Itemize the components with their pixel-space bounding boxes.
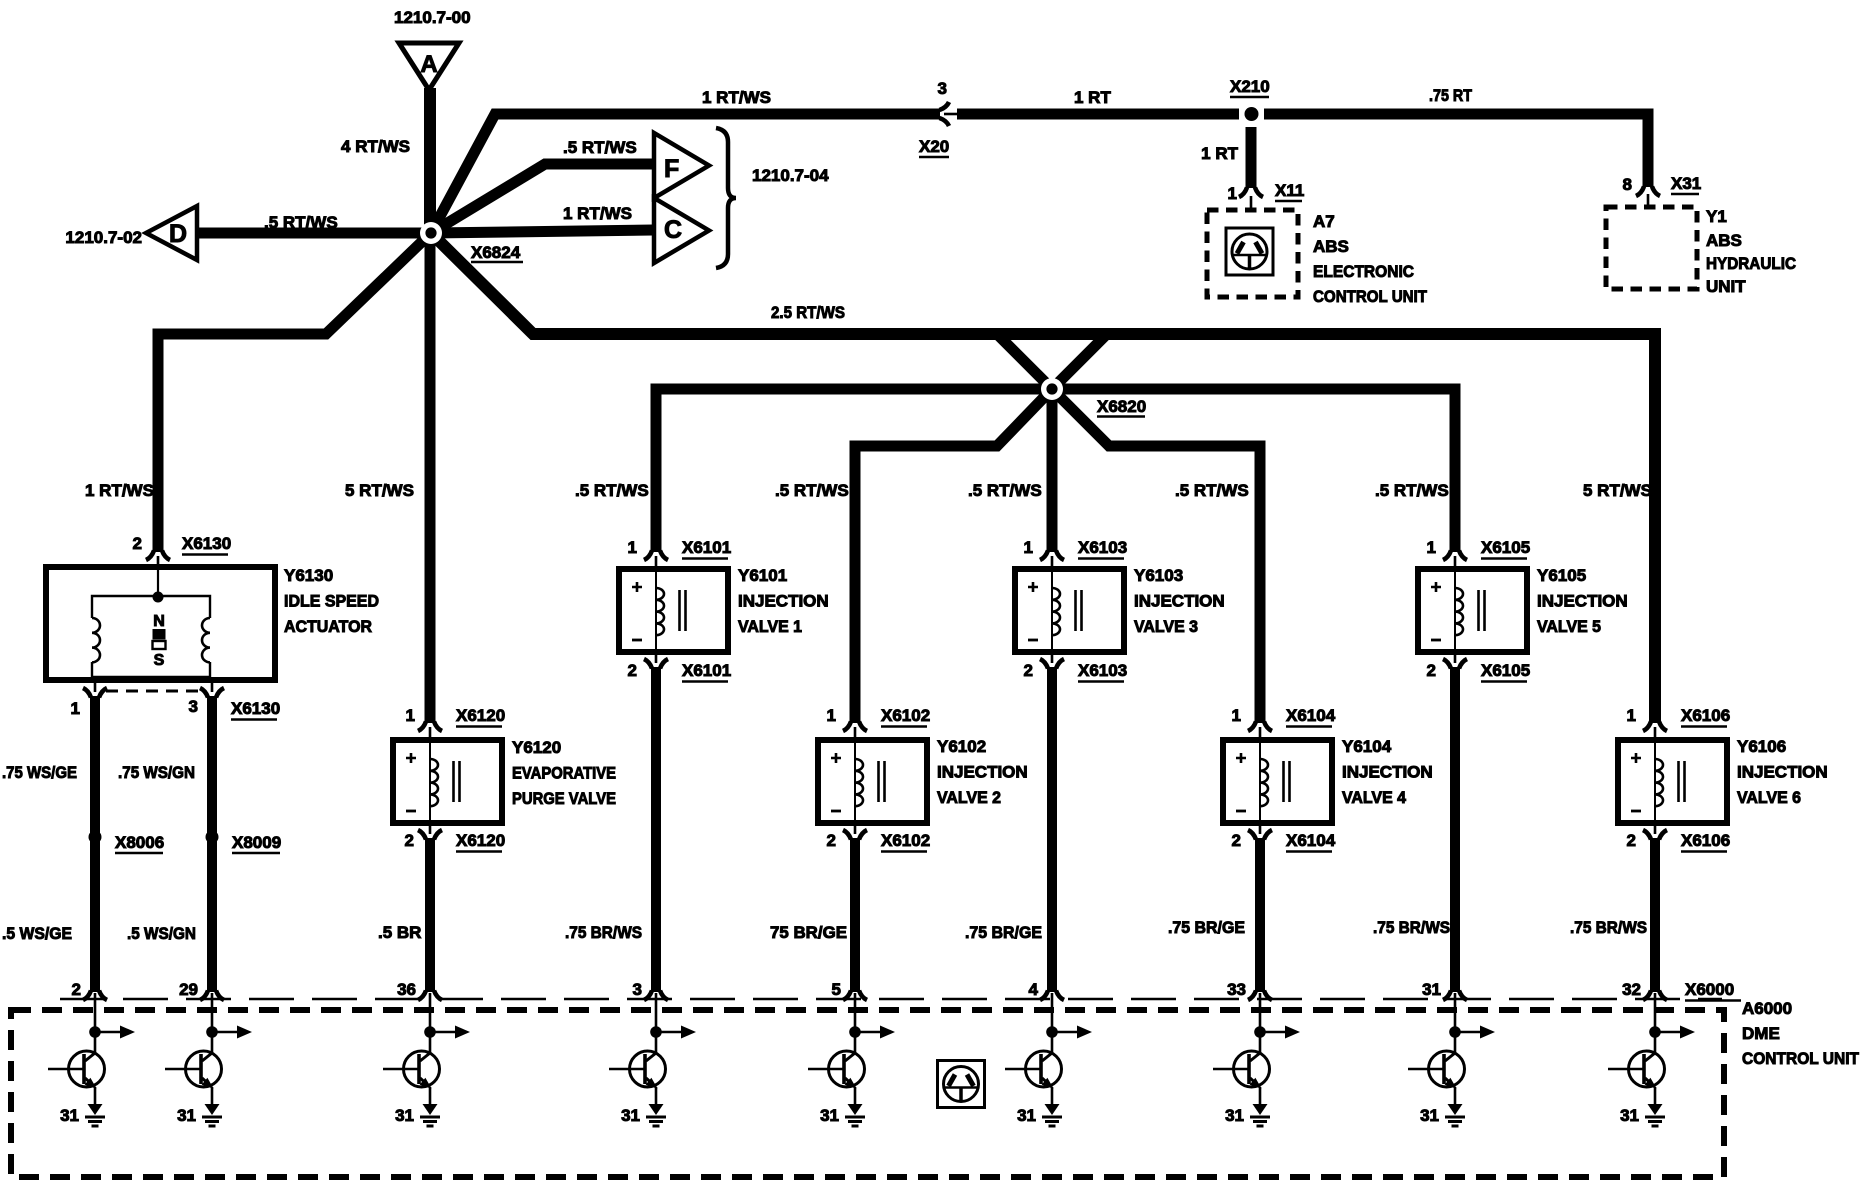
label Y6101 INJECTION VALVE 1 bbox=[738, 566, 829, 636]
brace for 1210.7-04 bbox=[716, 128, 736, 268]
svg-text:4 RT/WS: 4 RT/WS bbox=[341, 137, 410, 156]
svg-text:Y6120: Y6120 bbox=[512, 738, 561, 757]
svg-text:1: 1 bbox=[827, 706, 836, 725]
Y1 ABS hydraulic unit (dashed box) bbox=[1606, 207, 1697, 289]
svg-text:.5 RT/WS: .5 RT/WS bbox=[1175, 481, 1249, 500]
wire: X6104 pin 2 down to DME bbox=[1255, 838, 1265, 992]
svg-text:Y1: Y1 bbox=[1706, 207, 1727, 226]
svg-text:.5 WS/GE: .5 WS/GE bbox=[2, 924, 72, 943]
svg-text:1: 1 bbox=[1627, 706, 1636, 725]
connector X6104 pin 2 bbox=[1232, 823, 1336, 852]
svg-text:X8006: X8006 bbox=[115, 833, 164, 852]
connector X6106 pin 1 bbox=[1627, 706, 1731, 740]
svg-text:1: 1 bbox=[1024, 538, 1033, 557]
svg-text:X6103: X6103 bbox=[1078, 661, 1127, 680]
connector rail X6000 (thin dashed) bbox=[60, 998, 1722, 1000]
svg-text:31: 31 bbox=[1225, 1106, 1244, 1125]
connector X6101 pin 2 bbox=[628, 652, 732, 682]
svg-text:X31: X31 bbox=[1671, 174, 1701, 193]
splice X8006 bbox=[89, 831, 165, 854]
svg-text:X6000: X6000 bbox=[1685, 980, 1734, 999]
idle speed actuator Y6130 (box) bbox=[46, 567, 275, 680]
svg-text:X6820: X6820 bbox=[1097, 397, 1146, 416]
connector X6105 pin 1 bbox=[1427, 538, 1531, 569]
injection valve Y6102 bbox=[818, 740, 927, 823]
svg-text:INJECTION: INJECTION bbox=[937, 763, 1028, 782]
connector X20 pin 3 (inline arrow) bbox=[919, 79, 957, 157]
label X6000 bbox=[1685, 980, 1741, 1001]
svg-text:INJECTION: INJECTION bbox=[738, 592, 829, 611]
svg-text:X6104: X6104 bbox=[1286, 706, 1336, 725]
svg-text:INJECTION: INJECTION bbox=[1134, 592, 1225, 611]
svg-text:X6106: X6106 bbox=[1681, 831, 1730, 850]
connector X6104 pin 1 bbox=[1232, 706, 1336, 740]
svg-text:2: 2 bbox=[1427, 661, 1436, 680]
connector X6000 pin 29 bbox=[179, 980, 224, 1000]
wire: 1 RT from X210 down to X11 / A7 bbox=[1246, 127, 1257, 188]
svg-text:36: 36 bbox=[397, 980, 416, 999]
svg-text:X6120: X6120 bbox=[456, 706, 505, 725]
svg-text:X6120: X6120 bbox=[456, 831, 505, 850]
svg-text:X6105: X6105 bbox=[1481, 538, 1530, 557]
svg-text:5: 5 bbox=[832, 980, 841, 999]
wire: .75 WS/GE pin1 down to DME pin 2 bbox=[90, 696, 100, 992]
svg-text:31: 31 bbox=[621, 1106, 640, 1125]
svg-text:VALVE 6: VALVE 6 bbox=[1737, 788, 1801, 807]
injection valve Y6101 bbox=[619, 569, 728, 652]
svg-text:2: 2 bbox=[72, 980, 81, 999]
steering wheel icon (DME / ABS interface) bbox=[938, 1061, 985, 1108]
wire: .5 RT/WS from X6824 left to triangle D bbox=[196, 228, 431, 239]
wire: X6820 diagonal down-right then down to X6104 pin 1 bbox=[1052, 389, 1260, 723]
svg-text:VALVE 5: VALVE 5 bbox=[1537, 617, 1601, 636]
wire: .5 RT/WS from X6820 straight down to X6103 pin 1 bbox=[1047, 389, 1058, 552]
svg-text:X6102: X6102 bbox=[881, 706, 930, 725]
svg-text:IDLE SPEED: IDLE SPEED bbox=[284, 592, 379, 611]
svg-text:ACTUATOR: ACTUATOR bbox=[284, 617, 372, 636]
svg-text:UNIT: UNIT bbox=[1706, 277, 1746, 296]
connector X6101 pin 1 bbox=[628, 538, 732, 569]
svg-text:X6130: X6130 bbox=[182, 534, 231, 553]
X6130 connector dashed link bbox=[106, 690, 199, 693]
svg-text:31: 31 bbox=[1620, 1106, 1639, 1125]
transistor output stage (pin 32) bbox=[1608, 993, 1695, 1126]
svg-text:X6130: X6130 bbox=[231, 699, 280, 718]
svg-text:.75 WS/GN: .75 WS/GN bbox=[118, 763, 195, 782]
junction X210 bbox=[1230, 77, 1270, 121]
label A7 ABS ELECTRONIC CONTROL UNIT bbox=[1313, 212, 1428, 306]
wire: 5 RT/WS from X6824 straight down to Y6120 pin 1 bbox=[425, 233, 436, 723]
magnet core N/S (Y6130) bbox=[153, 613, 166, 669]
svg-text:32: 32 bbox=[1622, 980, 1641, 999]
label A6000 DME CONTROL UNIT bbox=[1742, 999, 1860, 1068]
svg-text:Y6104: Y6104 bbox=[1342, 737, 1392, 756]
connector X31 pin 8 bbox=[1623, 174, 1702, 208]
svg-text:X210: X210 bbox=[1230, 77, 1270, 96]
transistor output stage (pin 3) bbox=[609, 993, 696, 1126]
connector X6130 pin 3 bbox=[189, 680, 224, 716]
connector X6000 pin 33 bbox=[1227, 980, 1272, 1000]
label Y6105 INJECTION VALVE 5 bbox=[1537, 566, 1628, 636]
connector X6120 pin 1 bbox=[406, 706, 506, 740]
svg-text:.5 RT/WS: .5 RT/WS bbox=[575, 481, 649, 500]
label Y6103 INJECTION VALVE 3 bbox=[1134, 566, 1225, 636]
svg-text:VALVE 2: VALVE 2 bbox=[937, 788, 1001, 807]
transistor output stage (pin 5) bbox=[808, 993, 895, 1126]
node D (off-page triangle D to 1210.7-02) bbox=[146, 206, 197, 260]
svg-text:1: 1 bbox=[406, 706, 415, 725]
A7 ABS electronic control unit (dashed box) bbox=[1207, 210, 1298, 297]
svg-text:X6104: X6104 bbox=[1286, 831, 1336, 850]
label X6130 (bottom) bbox=[231, 699, 280, 720]
svg-text:1: 1 bbox=[1427, 538, 1436, 557]
svg-text:F: F bbox=[664, 155, 679, 183]
svg-text:.5 RT/WS: .5 RT/WS bbox=[264, 213, 338, 232]
junction X6824 bbox=[420, 222, 523, 262]
coil R (Y6130 right winding) bbox=[202, 618, 210, 662]
wire: X6106 pin 2 down to DME bbox=[1650, 838, 1660, 992]
connector X6130 pin 2 bbox=[133, 534, 232, 568]
transistor output stage (pin 4) bbox=[1005, 993, 1092, 1126]
wire: X6103 pin 2 down to DME bbox=[1047, 667, 1057, 992]
svg-text:.75 BR/GE: .75 BR/GE bbox=[1168, 918, 1245, 937]
svg-text:2: 2 bbox=[1627, 831, 1636, 850]
wire: .5 BR from X6120 pin 2 to DME pin 36 bbox=[425, 838, 435, 992]
wire: 1 RT/WS from X6824 down-left then down to X6130 pin 2 bbox=[158, 233, 431, 552]
connector X6103 pin 2 bbox=[1024, 652, 1128, 682]
svg-text:2: 2 bbox=[405, 831, 414, 850]
connector X6120 pin 2 bbox=[405, 823, 506, 852]
svg-text:X11: X11 bbox=[1275, 181, 1304, 200]
svg-text:2.5 RT/WS: 2.5 RT/WS bbox=[771, 303, 845, 322]
svg-text:1: 1 bbox=[1228, 184, 1237, 203]
svg-text:VALVE 4: VALVE 4 bbox=[1342, 788, 1406, 807]
svg-text:.5 RT/WS: .5 RT/WS bbox=[563, 138, 637, 157]
svg-text:X8009: X8009 bbox=[232, 833, 281, 852]
svg-text:ABS: ABS bbox=[1706, 231, 1742, 250]
connector X6103 pin 1 bbox=[1024, 538, 1128, 569]
wire: 1 RT from X20 to X210 bbox=[957, 109, 1239, 120]
svg-text:A7: A7 bbox=[1313, 212, 1335, 231]
Y6130 inner winding frame bbox=[92, 567, 210, 677]
A6000 DME control unit (dashed box) bbox=[11, 1010, 1724, 1177]
connector X6105 pin 2 bbox=[1427, 652, 1531, 682]
connector X6000 pin 2 bbox=[72, 980, 107, 1000]
svg-text:4: 4 bbox=[1029, 980, 1039, 999]
svg-text:Y6130: Y6130 bbox=[284, 566, 333, 585]
svg-text:C: C bbox=[664, 216, 682, 244]
transistor output stage (pin 33) bbox=[1213, 993, 1300, 1126]
svg-text:1 RT/WS: 1 RT/WS bbox=[702, 88, 771, 107]
svg-text:3: 3 bbox=[189, 697, 198, 716]
label Y6130 IDLE SPEED ACTUATOR bbox=[284, 566, 379, 636]
connector X6130 pin 1 bbox=[71, 680, 107, 718]
wire: 1 RT/WS from X6824 up to X20 arrow bbox=[431, 114, 940, 233]
svg-text:31: 31 bbox=[395, 1106, 414, 1125]
svg-text:A: A bbox=[420, 51, 437, 78]
svg-text:.5 RT/WS: .5 RT/WS bbox=[775, 481, 849, 500]
svg-text:31: 31 bbox=[1422, 980, 1441, 999]
label Y6104 INJECTION VALVE 4 bbox=[1342, 737, 1433, 807]
svg-text:.75 BR/WS: .75 BR/WS bbox=[1373, 918, 1450, 937]
injection valve Y6105 bbox=[1418, 569, 1527, 652]
svg-text:VALVE 3: VALVE 3 bbox=[1134, 617, 1198, 636]
svg-text:2: 2 bbox=[1024, 661, 1033, 680]
svg-text:31: 31 bbox=[177, 1106, 196, 1125]
transistor output stage (pin 2) bbox=[48, 993, 135, 1126]
svg-text:.75 WS/GE: .75 WS/GE bbox=[2, 763, 77, 782]
connector X6000 pin 4 bbox=[1029, 980, 1064, 1000]
svg-text:N: N bbox=[153, 613, 165, 630]
wire: X6820 diagonal down-left then down to X6102 pin 1 bbox=[855, 389, 1052, 723]
svg-text:2: 2 bbox=[133, 534, 142, 553]
label Y1 ABS HYDRAULIC UNIT bbox=[1706, 207, 1796, 296]
svg-text:X6106: X6106 bbox=[1681, 706, 1730, 725]
svg-text:DME: DME bbox=[1742, 1024, 1780, 1043]
svg-text:2: 2 bbox=[628, 661, 637, 680]
svg-text:X6102: X6102 bbox=[881, 831, 930, 850]
wire: 1 RT/WS from X6824 right to triangle C bbox=[431, 230, 653, 233]
injection valve Y6103 bbox=[1015, 569, 1124, 652]
svg-text:75 BR/GE: 75 BR/GE bbox=[770, 923, 847, 942]
connector X6000 pin 3 bbox=[633, 980, 668, 1000]
label Y6106 INJECTION VALVE 6 bbox=[1737, 737, 1828, 807]
svg-text:D: D bbox=[169, 220, 187, 248]
junction X6820 bbox=[1041, 378, 1146, 417]
label Y6120 EVAPORATIVE PURGE VALVE bbox=[512, 738, 616, 808]
wire: X6820 diagonal up-right to 2.5 RT/WS trunk bbox=[1052, 333, 1108, 389]
connector X6000 pin 5 bbox=[832, 980, 867, 1000]
connector X6102 pin 1 bbox=[827, 706, 931, 740]
connector X6000 pin 36 bbox=[397, 980, 442, 1000]
svg-text:31: 31 bbox=[820, 1106, 839, 1125]
transistor output stage (pin 36) bbox=[383, 993, 470, 1126]
svg-text:1: 1 bbox=[71, 699, 80, 718]
wire: X6101 pin 2 down to DME bbox=[651, 667, 661, 992]
steering wheel icon (A7) bbox=[1226, 228, 1273, 275]
svg-text:.5 RT/WS: .5 RT/WS bbox=[1375, 481, 1449, 500]
svg-text:PURGE VALVE: PURGE VALVE bbox=[512, 789, 616, 808]
svg-text:X6824: X6824 bbox=[471, 243, 521, 262]
svg-text:1 RT/WS: 1 RT/WS bbox=[85, 481, 154, 500]
svg-text:A6000: A6000 bbox=[1742, 999, 1792, 1018]
injection valve Y6104 bbox=[1223, 740, 1332, 823]
svg-text:VALVE 1: VALVE 1 bbox=[738, 617, 802, 636]
label Y6102 INJECTION VALVE 2 bbox=[937, 737, 1028, 807]
svg-text:S: S bbox=[154, 652, 165, 669]
evaporative purge valve Y6120 bbox=[393, 740, 502, 823]
svg-text:1210.7-04: 1210.7-04 bbox=[752, 166, 829, 185]
svg-text:Y6101: Y6101 bbox=[738, 566, 787, 585]
svg-text:CONTROL UNIT: CONTROL UNIT bbox=[1313, 287, 1428, 306]
wire: .75 WS/GN pin3 down to DME pin 29 bbox=[207, 696, 217, 992]
svg-text:HYDRAULIC: HYDRAULIC bbox=[1706, 254, 1796, 273]
injection valve Y6106 bbox=[1618, 740, 1727, 823]
svg-text:2: 2 bbox=[1232, 831, 1241, 850]
svg-text:INJECTION: INJECTION bbox=[1342, 763, 1433, 782]
svg-text:X6103: X6103 bbox=[1078, 538, 1127, 557]
wire: 4 RT/WS from triangle A down to junction X6824 bbox=[424, 88, 436, 233]
connector X6000 pin 31 bbox=[1422, 980, 1467, 1000]
svg-text:.75 BR/WS: .75 BR/WS bbox=[1570, 918, 1647, 937]
svg-text:1210.7-02: 1210.7-02 bbox=[65, 228, 142, 247]
svg-text:.75 RT: .75 RT bbox=[1429, 86, 1473, 105]
svg-text:.5 BR: .5 BR bbox=[378, 923, 421, 942]
svg-text:1: 1 bbox=[1232, 706, 1241, 725]
svg-text:Y6105: Y6105 bbox=[1537, 566, 1586, 585]
svg-text:5 RT/WS: 5 RT/WS bbox=[345, 481, 414, 500]
svg-text:Y6102: Y6102 bbox=[937, 737, 986, 756]
node C (off-page triangle C) bbox=[654, 198, 709, 263]
svg-text:.5 WS/GN: .5 WS/GN bbox=[127, 924, 196, 943]
svg-text:2: 2 bbox=[827, 831, 836, 850]
svg-text:3: 3 bbox=[633, 980, 642, 999]
svg-text:ABS: ABS bbox=[1313, 237, 1349, 256]
svg-text:3: 3 bbox=[938, 79, 947, 98]
svg-text:.75 BR/WS: .75 BR/WS bbox=[565, 923, 642, 942]
svg-text:1210.7-00: 1210.7-00 bbox=[394, 8, 471, 27]
svg-text:X6105: X6105 bbox=[1481, 661, 1530, 680]
node A (off-page triangle A) bbox=[399, 43, 459, 90]
svg-text:X6101: X6101 bbox=[682, 538, 731, 557]
svg-text:31: 31 bbox=[1017, 1106, 1036, 1125]
svg-text:CONTROL UNIT: CONTROL UNIT bbox=[1742, 1049, 1860, 1068]
connector X6000 pin 32 bbox=[1622, 980, 1667, 1000]
svg-text:5 RT/WS: 5 RT/WS bbox=[1583, 481, 1652, 500]
wire: X6102 pin 2 down to DME bbox=[850, 838, 860, 992]
coil L (Y6130 left winding) bbox=[92, 618, 100, 662]
svg-text:Y6106: Y6106 bbox=[1737, 737, 1786, 756]
connector X6102 pin 2 bbox=[827, 823, 931, 852]
svg-text:8: 8 bbox=[1623, 175, 1632, 194]
svg-text:EVAPORATIVE: EVAPORATIVE bbox=[512, 764, 616, 783]
svg-text:INJECTION: INJECTION bbox=[1737, 763, 1828, 782]
wire: 2.5 RT/WS trunk from X6824 down-right, right, then down to X6106 pin 1 bbox=[431, 233, 1655, 723]
wire: .75 RT from X210 right then down to X31 / Y1 bbox=[1264, 114, 1648, 187]
wire: X6820 diagonal up-left to 2.5 RT/WS trunk bbox=[996, 333, 1052, 389]
svg-text:31: 31 bbox=[60, 1106, 79, 1125]
svg-text:31: 31 bbox=[1420, 1106, 1439, 1125]
transistor output stage (pin 31) bbox=[1408, 993, 1495, 1126]
svg-text:1 RT: 1 RT bbox=[1201, 144, 1238, 163]
svg-text:X6101: X6101 bbox=[682, 661, 731, 680]
svg-text:.75 BR/GE: .75 BR/GE bbox=[965, 923, 1042, 942]
connector X11 pin 1 bbox=[1228, 181, 1305, 211]
wire: X6105 pin 2 down to DME bbox=[1450, 667, 1460, 992]
svg-text:1: 1 bbox=[628, 538, 637, 557]
svg-text:1 RT/WS: 1 RT/WS bbox=[563, 204, 632, 223]
connector X6106 pin 2 bbox=[1627, 823, 1731, 852]
splice X8009 bbox=[206, 831, 282, 854]
svg-text:29: 29 bbox=[179, 980, 198, 999]
svg-text:1 RT: 1 RT bbox=[1074, 88, 1111, 107]
svg-text:INJECTION: INJECTION bbox=[1537, 592, 1628, 611]
svg-text:ELECTRONIC: ELECTRONIC bbox=[1313, 262, 1414, 281]
svg-text:.5 RT/WS: .5 RT/WS bbox=[968, 481, 1042, 500]
svg-text:33: 33 bbox=[1227, 980, 1246, 999]
wire: .5 RT/WS from X6824 up-right to triangle F bbox=[431, 164, 653, 233]
node F (off-page triangle F) bbox=[654, 133, 709, 198]
svg-text:X20: X20 bbox=[919, 137, 949, 156]
wire: X6820 horizontal branch, left elbow down to X6101, right elbow down to X6105 bbox=[656, 389, 1455, 552]
svg-text:Y6103: Y6103 bbox=[1134, 566, 1183, 585]
transistor output stage (pin 29) bbox=[165, 993, 252, 1126]
